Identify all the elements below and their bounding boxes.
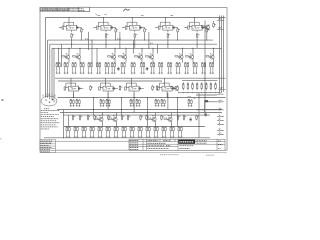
wire U1 in stub xyxy=(59,26,62,28)
transistor Q9 xyxy=(206,54,214,60)
wire mid bus b xyxy=(58,80,162,82)
label T10 xyxy=(219,132,222,134)
wire ladder bottom bus xyxy=(178,92,219,94)
wire vertical interconnect 15 xyxy=(121,98,123,116)
wire vertical interconnect 10 xyxy=(167,93,169,110)
resistor-capacitor cluster RC42 xyxy=(154,126,159,138)
junction node B1 xyxy=(73,97,74,98)
component K1 dark block xyxy=(204,100,208,102)
terminal T4 xyxy=(217,101,224,102)
resistor-capacitor cluster RC16 xyxy=(184,62,189,74)
wire U2 in stub xyxy=(93,26,96,28)
diode CR2 xyxy=(146,67,148,71)
revision history strip xyxy=(40,8,79,12)
wire vertical interconnect 6 xyxy=(119,32,121,48)
wire R2B drop xyxy=(115,33,117,40)
wire Q4 collector xyxy=(125,48,127,54)
net label ticks on top bus xyxy=(98,14,174,16)
resistor-capacitor cluster RC5 xyxy=(88,62,93,74)
wire mid bus c xyxy=(58,97,226,99)
junction node Q8c xyxy=(193,48,194,49)
junction node B9 xyxy=(199,97,200,98)
wire Q8 emitter xyxy=(192,60,194,62)
resistor R27 ladder xyxy=(215,82,217,90)
resistor R41 xyxy=(119,85,122,91)
wire vertical interconnect 17 xyxy=(177,98,179,127)
junction node Q2c xyxy=(80,48,81,49)
resistor-capacitor cluster RC24 xyxy=(106,99,111,106)
wire U9 top pin xyxy=(164,78,166,84)
resistor-capacitor cluster RC9 xyxy=(121,62,126,74)
label Q5 xyxy=(139,52,140,54)
wire Q2 emitter xyxy=(79,60,81,62)
resistor R38 xyxy=(146,115,149,121)
resistor-capacitor cluster RC18 xyxy=(201,62,206,74)
resistor-capacitor cluster RC21 xyxy=(70,99,75,106)
wire right link c xyxy=(196,109,217,111)
label R45 xyxy=(188,96,192,98)
wire Q9 emitter xyxy=(213,60,215,62)
transistor Q4 xyxy=(119,54,127,60)
inner bottom band line xyxy=(56,140,130,142)
transistor Q6 xyxy=(146,54,154,60)
wire U4 in stub xyxy=(155,26,158,28)
resistor R32 xyxy=(87,115,90,121)
resistor R41 xyxy=(183,115,186,121)
resistor-capacitor cluster RC40 xyxy=(138,126,143,138)
junction node U3b xyxy=(143,39,146,42)
wire U8 top pin xyxy=(131,78,133,84)
wire R4B drop xyxy=(177,33,179,40)
resistor-capacitor cluster RC4 xyxy=(80,62,85,74)
diode CR1 xyxy=(117,67,119,71)
IC can U11 package outline xyxy=(41,94,57,107)
junction node U2 xyxy=(106,44,107,45)
revision box label xyxy=(79,7,90,12)
junction node B3 xyxy=(108,97,109,98)
resistor R22 ladder xyxy=(192,82,194,90)
resistor-capacitor cluster RC34 xyxy=(90,126,95,138)
wire Q6 collector xyxy=(152,48,154,54)
wire U3 in stub xyxy=(122,26,125,28)
junction node J8 xyxy=(147,112,148,113)
resistor R42 xyxy=(152,85,155,91)
resistor-capacitor cluster RC23 xyxy=(100,99,105,106)
resistor R40 xyxy=(90,85,93,91)
terminal T3 xyxy=(217,94,224,95)
junction node J14 xyxy=(205,78,206,79)
junction node J6 xyxy=(167,97,168,98)
label U4 xyxy=(166,27,168,29)
resistor-capacitor cluster RC38 xyxy=(122,126,127,138)
wire left bus 2 xyxy=(47,40,49,98)
title block center text xyxy=(148,142,166,144)
label T8 xyxy=(219,122,220,124)
wire top supply bus xyxy=(45,17,225,19)
wire Q9 collector xyxy=(213,48,215,54)
junction node J7 xyxy=(134,97,135,98)
resistor-capacitor cluster RC10 xyxy=(131,62,136,74)
wire vertical interconnect 2 xyxy=(61,44,63,67)
resistor-capacitor cluster RC44 xyxy=(170,126,175,138)
transistor Q8 xyxy=(186,54,194,60)
junction node L5 xyxy=(200,91,203,94)
wire Q8 collector xyxy=(192,48,194,54)
wire R3B drop xyxy=(144,33,146,40)
junction node L1 xyxy=(182,91,185,94)
label Q4 xyxy=(123,52,124,54)
transistor Q9 xyxy=(202,24,210,30)
resistor-capacitor cluster RC14 xyxy=(167,62,172,74)
resistor-capacitor cluster RC1 xyxy=(56,62,61,74)
wire ladder top bus xyxy=(182,80,217,82)
terminal IN right xyxy=(217,29,224,30)
transistor Q1 xyxy=(62,54,70,60)
resistor R26 ladder xyxy=(210,82,212,90)
resistor R4B xyxy=(177,28,180,34)
junction node U2t xyxy=(102,16,105,19)
wire bus row1-row2 3 xyxy=(52,47,222,49)
junction node Q6c xyxy=(153,48,154,49)
label U11 xyxy=(44,108,49,110)
label U6 xyxy=(72,88,74,90)
wire U3 top pin to bus xyxy=(131,18,133,23)
label T5 xyxy=(219,107,222,109)
junction node B8 xyxy=(177,97,178,98)
wire Q6 emitter xyxy=(152,60,154,62)
junction node L2 xyxy=(186,91,189,94)
wire right link b xyxy=(205,101,217,103)
wire U9 bottom pin xyxy=(166,93,168,98)
wire U7 bottom pin xyxy=(107,93,109,98)
wire Q11 emitter xyxy=(116,123,118,127)
resistor-capacitor cluster RC29 xyxy=(188,99,193,106)
diode CR3 xyxy=(190,117,192,121)
wire U1 output drop xyxy=(71,38,73,48)
transistor Q11 xyxy=(109,116,117,122)
wire right vertical main xyxy=(204,21,206,115)
terminal T6 xyxy=(217,116,224,117)
junction node U4 xyxy=(167,44,168,45)
wire Q11 collector xyxy=(116,113,118,117)
notes text block xyxy=(41,109,60,111)
wire vertical interconnect 18 xyxy=(198,93,200,138)
resistor-capacitor cluster RC7 xyxy=(105,62,110,74)
wire Q5 collector xyxy=(141,48,143,54)
transistor Q5 xyxy=(135,54,143,60)
terminal T5 xyxy=(217,109,224,110)
wire vertical interconnect 11 xyxy=(133,93,135,113)
wire Q7 collector xyxy=(182,48,184,54)
scan fleck left xyxy=(2,99,4,101)
resistor R40 xyxy=(177,115,180,121)
label T4 xyxy=(219,99,223,101)
resistor R23 ladder xyxy=(196,82,198,90)
resistor R20 ladder xyxy=(182,82,184,90)
terminal T10 xyxy=(217,134,224,135)
net label bus2 xyxy=(117,38,121,40)
label Q6 xyxy=(150,52,151,54)
wire U3 output drop xyxy=(134,38,136,48)
resistor-capacitor cluster RC15 xyxy=(176,62,181,74)
wire Q3 emitter xyxy=(114,60,116,62)
label U3 xyxy=(133,27,135,29)
transistor Q10 xyxy=(95,116,103,122)
junction node Q7c xyxy=(182,48,183,49)
resistor-capacitor cluster RC11 xyxy=(140,62,145,74)
wire Q5 emitter xyxy=(141,60,143,62)
transistor Q7 xyxy=(175,54,183,60)
wire U5 top pin to bus xyxy=(194,18,196,23)
junction node U4t xyxy=(164,16,167,19)
wire vertical interconnect 16 xyxy=(93,98,95,116)
wire vertical interconnect 5 xyxy=(96,48,98,66)
tick marks under strip xyxy=(96,14,107,16)
label Q12 xyxy=(152,115,154,117)
resistor-capacitor cluster RC27 xyxy=(155,99,160,106)
resistor R33 xyxy=(94,115,97,121)
label Q2 xyxy=(77,52,78,54)
terminal V+ top right xyxy=(217,20,224,21)
label R46 xyxy=(194,98,196,100)
wire lower bus 3 xyxy=(63,114,210,116)
op-amp U6 xyxy=(64,83,83,93)
junction node Q4c xyxy=(126,48,127,49)
resistor-capacitor cluster RC28 xyxy=(161,99,166,106)
net label bus1 xyxy=(85,38,89,40)
junction node L4 xyxy=(196,91,199,94)
label T6 xyxy=(219,114,220,116)
op-amp U3 xyxy=(125,22,144,32)
resistor-capacitor cluster RC39 xyxy=(130,126,135,138)
wire lower bus 2 xyxy=(60,112,222,114)
label U2 xyxy=(104,27,106,29)
wire lower bus 1 xyxy=(57,109,222,111)
resistor R21 ladder xyxy=(187,82,189,90)
wire Q2 collector xyxy=(79,48,81,54)
wire right bus 3 xyxy=(223,16,225,93)
wire U6 bottom pin xyxy=(73,93,75,98)
resistor-capacitor cluster RC25 xyxy=(130,99,135,106)
resistor R24 ladder xyxy=(201,82,203,90)
resistor-capacitor cluster RC43 xyxy=(162,126,167,138)
wire vertical interconnect 8 xyxy=(148,32,150,48)
resistor R31 xyxy=(79,115,82,121)
terminal T9 xyxy=(217,130,224,131)
junction node Q3c xyxy=(115,48,116,49)
junction node J10 xyxy=(121,109,122,110)
company logo block xyxy=(178,140,195,144)
label Q13 xyxy=(168,115,170,117)
junction node J11 xyxy=(199,126,200,127)
transistor Q12 xyxy=(148,116,156,122)
resistor R4A xyxy=(167,33,170,39)
junction node U2b xyxy=(114,39,117,42)
wire right link a xyxy=(196,94,217,96)
junction node J3 xyxy=(148,48,149,49)
junction node B2 xyxy=(93,97,94,98)
wire vertical interconnect 14 xyxy=(147,98,149,127)
junction node B10 xyxy=(205,97,206,98)
resistor R30 xyxy=(72,115,75,121)
junction node U4b xyxy=(176,39,179,42)
wire Q7 emitter xyxy=(182,60,184,62)
junction node L7 xyxy=(209,91,212,94)
resistor-capacitor cluster RC17 xyxy=(193,62,198,74)
wire vertical interconnect 9 xyxy=(157,44,159,53)
label U5 xyxy=(195,27,197,29)
label Q10 xyxy=(99,115,101,117)
wire U8 bottom pin xyxy=(133,93,135,98)
junction node U1t xyxy=(68,16,71,19)
wire Q13 collector xyxy=(171,113,173,117)
label T3 xyxy=(219,92,223,94)
label T9 xyxy=(219,128,221,130)
resistor-capacitor cluster RC37 xyxy=(114,126,119,138)
transistor Q3 xyxy=(108,54,116,60)
wire vertical interconnect 21 xyxy=(63,110,65,138)
op-amp U7 xyxy=(99,83,118,93)
wire Q10 emitter xyxy=(102,123,104,127)
wire vertical interconnect 7 xyxy=(133,40,135,53)
op-amp U4 xyxy=(158,22,177,32)
wire left bus 3 xyxy=(49,44,51,99)
op-amp U8 xyxy=(125,83,144,93)
resistor R34 xyxy=(108,115,111,121)
resistor-capacitor cluster RC3 xyxy=(72,62,77,74)
wire Q3 collector xyxy=(114,48,116,54)
resistor-capacitor cluster RC32 xyxy=(74,126,79,138)
wire bus row1-row2 2 xyxy=(50,43,217,45)
resistor R37 xyxy=(140,115,143,121)
junction node J12 xyxy=(63,137,64,138)
wire left bus 4 xyxy=(51,48,53,100)
resistor-capacitor cluster RC26 xyxy=(136,99,141,106)
resistor R3A xyxy=(134,33,137,39)
resistor-capacitor cluster RC8 xyxy=(111,62,116,74)
resistor-capacitor cluster RC12 xyxy=(150,62,155,74)
junction node J2 xyxy=(119,48,120,49)
junction node U1 xyxy=(71,44,72,45)
net label bus3 xyxy=(150,42,153,44)
junction node L6 xyxy=(205,91,208,94)
resistor-capacitor cluster RC36 xyxy=(106,126,111,138)
junction node U3t xyxy=(131,16,134,19)
wire left bus 5 xyxy=(53,48,55,102)
wire Q4 emitter xyxy=(125,60,127,62)
label U7 xyxy=(106,88,108,90)
resistor R1A xyxy=(71,33,74,39)
wire Q1 collector xyxy=(68,48,70,54)
junction node L3 xyxy=(191,91,194,94)
resistor R5B xyxy=(206,28,209,34)
drawing border frame xyxy=(40,8,227,151)
wire U1 top pin to bus xyxy=(68,18,70,23)
op-amp U5 xyxy=(188,22,207,32)
junction node J1 xyxy=(92,40,93,41)
junction node J4 xyxy=(133,44,134,45)
transistor Q17 xyxy=(171,85,179,91)
label U9 xyxy=(165,88,167,90)
wire vertical interconnect 13 xyxy=(73,93,75,98)
junction node B4 xyxy=(121,97,122,98)
junction node J13 xyxy=(205,97,206,98)
junction node Q9c xyxy=(213,48,214,49)
resistor-capacitor cluster RC31 xyxy=(66,126,71,138)
terminal T8 xyxy=(217,124,224,125)
wire bottom bus a xyxy=(64,126,205,128)
junction node U5 xyxy=(197,44,198,45)
outer trim line bottom xyxy=(40,152,227,154)
wire Q10 collector xyxy=(102,113,104,117)
junction node Q5c xyxy=(142,48,143,49)
resistor R35 xyxy=(121,115,124,121)
wire vertical interconnect 3 xyxy=(88,32,90,50)
wire U4 top pin to bus xyxy=(164,18,166,23)
approval table text xyxy=(41,140,53,142)
junction node U3 xyxy=(134,44,135,45)
resistor R2B xyxy=(115,28,118,34)
resistor-capacitor cluster RC22 xyxy=(76,99,81,106)
op-amp U9 xyxy=(158,83,177,93)
junction node Q9 xyxy=(213,21,214,22)
junction node J5 xyxy=(58,48,59,49)
wire Q13 emitter xyxy=(171,123,173,127)
terminal T7 xyxy=(217,120,224,121)
resistor-capacitor cluster RC6 xyxy=(96,62,101,74)
op-amp U1 xyxy=(62,22,81,32)
junction node B6 xyxy=(147,97,148,98)
wire Q12 emitter xyxy=(155,123,157,127)
label T7 xyxy=(219,118,221,120)
resistor R43 xyxy=(156,85,159,91)
label Q1 xyxy=(66,52,67,54)
wire U7 top pin xyxy=(105,78,107,84)
wire Q1 emitter xyxy=(68,60,70,62)
resistor R25 ladder xyxy=(205,82,207,90)
title block right texts xyxy=(197,140,207,142)
resistor-capacitor cluster RC33 xyxy=(82,126,87,138)
wire vertical interconnect 1 xyxy=(58,48,60,67)
diode CR4 xyxy=(205,113,207,117)
junction node Q1c xyxy=(69,48,70,49)
resistor R36 xyxy=(127,115,130,121)
junction node U1b xyxy=(80,39,83,42)
junction node U5t xyxy=(193,16,196,19)
wire bottom bus b xyxy=(44,137,210,139)
junction node U5b xyxy=(205,39,208,42)
resistor R39 xyxy=(161,115,164,121)
resistor R9A xyxy=(213,22,216,28)
wire U2 output drop xyxy=(105,38,107,48)
resistor-capacitor cluster RC13 xyxy=(158,62,163,74)
junction node B5 xyxy=(134,97,135,98)
label Q9 xyxy=(210,52,211,54)
wire vertical interconnect 19 xyxy=(204,102,206,113)
wire U4 output drop xyxy=(167,38,169,48)
resistor R1B xyxy=(81,28,84,34)
resistor-capacitor cluster RC45 xyxy=(178,126,183,138)
wire Q12 collector xyxy=(155,113,157,117)
label Q7 xyxy=(179,52,180,54)
resistor-capacitor cluster RC2 xyxy=(64,62,69,74)
wire mid bus a xyxy=(55,77,226,79)
junction node J9 xyxy=(93,109,94,110)
transistor Q2 xyxy=(73,54,81,60)
wire vertical interconnect 4 xyxy=(91,40,93,66)
label Q8 xyxy=(190,52,191,54)
terminal OUT mid right xyxy=(218,89,225,90)
